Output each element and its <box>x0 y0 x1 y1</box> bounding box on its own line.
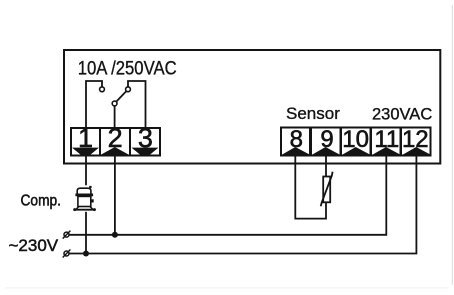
wire terminal1 to compressor <box>85 155 87 185</box>
wire terminal1 to NC contact <box>86 81 102 128</box>
compressor symbol <box>73 186 96 211</box>
relay contact NO <box>126 87 131 92</box>
terminal 10 clamp wedge <box>342 147 370 155</box>
terminal 8 box <box>281 128 310 156</box>
svg-text:Comp.: Comp. <box>21 193 62 210</box>
relay switch arm <box>116 91 126 101</box>
terminal 1 clamp wedge <box>72 148 99 155</box>
relay pivot <box>112 101 117 106</box>
svg-text:~230V: ~230V <box>9 236 59 255</box>
terminal 2 clamp wedge <box>101 147 129 155</box>
relay contact NC <box>100 87 105 92</box>
wire terminal3 to NO contact <box>128 81 146 128</box>
terminal 11 clamp wedge <box>372 147 400 155</box>
terminal 9 box <box>311 128 341 156</box>
svg-text:Sensor: Sensor <box>286 104 340 123</box>
wire live line to terminal 11 <box>69 155 386 235</box>
svg-text:230VAC: 230VAC <box>372 106 432 124</box>
terminal 3 clamp wedge <box>132 148 159 155</box>
wire compressor to bottom line <box>85 212 87 254</box>
terminal 12 box <box>401 128 431 156</box>
supply terminal upper <box>64 232 69 237</box>
junction dot neutral line <box>83 251 89 257</box>
terminal 12 clamp wedge <box>403 147 431 155</box>
wire terminal2 to pivot <box>114 106 116 128</box>
image edge artifacts <box>452 5 453 285</box>
thermistor diagonal <box>321 172 333 207</box>
terminal 2 box <box>100 128 130 156</box>
terminal 10 box <box>341 128 371 156</box>
terminal 8 clamp wedge <box>282 147 310 155</box>
svg-text:10A /250VAC: 10A /250VAC <box>78 59 177 80</box>
controller outline <box>64 50 440 164</box>
terminal 3 box <box>130 128 160 156</box>
terminal 1 box <box>71 128 100 156</box>
junction dot live line <box>112 232 118 238</box>
wire sensor loop terminal 8 <box>295 155 326 219</box>
wire terminal2 down to live line <box>114 155 116 235</box>
supply terminal lower <box>64 251 69 256</box>
terminal 11 box <box>371 128 401 156</box>
thermistor body <box>323 177 330 203</box>
wire neutral line to terminal 12 <box>69 155 416 254</box>
terminal 9 clamp wedge <box>312 147 340 155</box>
